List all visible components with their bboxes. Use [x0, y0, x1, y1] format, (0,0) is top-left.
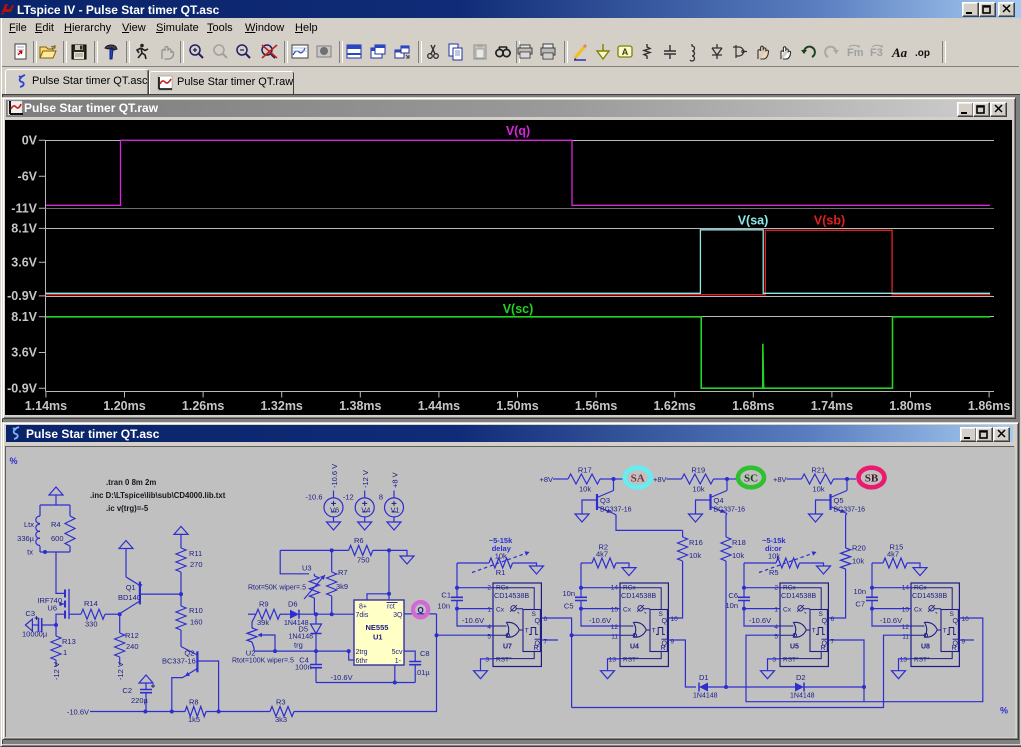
capacitor C7 [866, 597, 878, 600]
svg-text:T: T [943, 628, 947, 635]
toolbar [2, 38, 1019, 67]
voltage source V6 [333, 491, 335, 499]
svg-text:C3: C3 [25, 609, 35, 618]
svg-text:R: R [534, 645, 539, 652]
cd14538 U7 inner latch [523, 610, 540, 652]
x axis line [46, 391, 995, 393]
svg-text:100n: 100n [295, 663, 312, 672]
ground U8 RST [899, 659, 912, 671]
wire R3 to trigger node [294, 635, 437, 711]
svg-text:1.74ms: 1.74ms [811, 399, 853, 413]
diode D6 1N4148 [290, 610, 299, 619]
svg-text:rct: rct [387, 604, 395, 611]
svg-text:39k: 39k [257, 618, 269, 627]
toolbar icon text Aa [891, 42, 911, 62]
toolbar icon zoom out [233, 42, 253, 62]
diode D2 1N4148 [795, 683, 804, 692]
cd14538 U5 body [780, 583, 828, 667]
cd14538 U4 body [620, 583, 668, 667]
svg-text:C5: C5 [564, 602, 574, 611]
pane 1 top gridline 0V [46, 140, 995, 142]
wire U4 Qbar to D1 [668, 640, 696, 687]
toolbar icon ground [593, 42, 613, 62]
svg-text:S: S [532, 611, 537, 618]
svg-text:6: 6 [831, 616, 835, 623]
svg-text:R20: R20 [852, 544, 866, 553]
svg-text:U8: U8 [921, 644, 930, 651]
cd14538 U4 pin labels [623, 585, 646, 664]
svg-text:V(sb): V(sb) [814, 214, 845, 228]
svg-text:-10.6V: -10.6V [749, 616, 771, 625]
node junction trg D5 C4 [314, 649, 318, 653]
svg-text:3k9: 3k9 [336, 582, 348, 591]
svg-text:Q: Q [417, 606, 423, 615]
svg-text:-12 V: -12 V [116, 662, 125, 680]
svg-text:1.50ms: 1.50ms [496, 399, 538, 413]
diode D1 1N4148 [699, 683, 708, 692]
svg-text:4: 4 [487, 624, 491, 631]
tab Pulse Star timer QT.asc [5, 69, 149, 96]
svg-text:3.6V: 3.6V [11, 255, 37, 269]
svg-text:U3: U3 [302, 564, 312, 573]
toolbar icon zoom full extents [258, 42, 278, 62]
node junction pin8 jog [387, 592, 391, 596]
svg-text:RCx: RCx [914, 585, 927, 592]
svg-text:RST*: RST* [783, 657, 799, 664]
cd14538 U4 pin numbers [609, 585, 678, 664]
svg-text:Q1: Q1 [126, 583, 136, 592]
ground R15 [913, 568, 927, 576]
toolbar icon undo [798, 42, 818, 62]
wire U8 RCx Cx rail [871, 563, 873, 597]
svg-text:S: S [819, 611, 824, 618]
toolbar separator [339, 41, 343, 63]
svg-text:8.1V: 8.1V [11, 310, 37, 324]
svg-text:+8 V: +8 V [391, 472, 400, 488]
capacitor C3 [25, 619, 32, 631]
trace V(sc) [46, 317, 990, 388]
svg-text:10k: 10k [813, 484, 825, 493]
cd14538 U5 inner latch [810, 610, 827, 652]
node junction R6 R7 [330, 548, 334, 552]
node junction Q1 base R11 R10 [179, 592, 183, 596]
svg-text:SA: SA [631, 473, 645, 485]
svg-text:U6: U6 [47, 604, 57, 613]
wire Q5 collector [846, 479, 848, 491]
ground U4 RST [608, 659, 621, 671]
svg-text:BC337-16: BC337-16 [600, 507, 632, 514]
capacitor C5 [575, 597, 587, 600]
svg-text:240: 240 [126, 642, 139, 651]
ground Q4 base [696, 500, 711, 514]
schematic canvas [5, 446, 1015, 737]
wire loop top [40, 504, 70, 506]
x axis time labels [25, 399, 1011, 413]
svg-text:Q4: Q4 [714, 496, 724, 505]
wire pin8 pin4 top loop [388, 550, 390, 600]
svg-text:BC337-16: BC337-16 [162, 657, 196, 666]
svg-text:RCx: RCx [496, 585, 509, 592]
svg-text:C7: C7 [855, 600, 865, 609]
toolbar icon capacitor [660, 42, 680, 62]
svg-text:RST*: RST* [914, 657, 930, 664]
svg-text:.ic v(trg)=-5: .ic v(trg)=-5 [106, 504, 149, 513]
svg-text:-10.6V: -10.6V [67, 708, 89, 717]
power flag above Ltx R4 [49, 487, 63, 495]
svg-text:R: R [821, 645, 826, 652]
inductor Ltx [36, 505, 40, 552]
svg-text:RCx: RCx [783, 585, 796, 592]
wire trigger rail [254, 650, 349, 652]
wire trigger net to U7 [437, 634, 494, 636]
toolbar icon new schematic [11, 42, 31, 62]
ground V4 [358, 522, 372, 530]
toolbar icon cut [423, 42, 443, 62]
node junction Q2 emitter bottom rail [170, 710, 174, 714]
svg-text:D5: D5 [298, 625, 308, 634]
trace V(q) [46, 140, 990, 205]
toolbar separator [126, 41, 130, 63]
svg-text:1.62ms: 1.62ms [653, 399, 695, 413]
svg-text:6thr: 6thr [356, 658, 369, 665]
svg-text:1.26ms: 1.26ms [182, 399, 224, 413]
toolbar icon wire pencil [570, 42, 590, 62]
cd14538 U4 inner latch [650, 610, 667, 652]
diode D5 1N4148 [315, 614, 317, 624]
svg-text:tx: tx [27, 548, 33, 557]
pane 2 top gridline 8.1V [46, 228, 995, 230]
toolbar icon spice directive [913, 42, 933, 62]
svg-text:-10.6 V: -10.6 V [330, 464, 339, 488]
toolbar icon label net [615, 42, 635, 62]
toolbar icon copy [446, 42, 466, 62]
schematic restore button [976, 427, 993, 442]
svg-text:U7: U7 [503, 644, 512, 651]
svg-text:U2: U2 [246, 649, 256, 658]
svg-text:5cv: 5cv [392, 649, 403, 656]
svg-text:S: S [659, 611, 664, 618]
svg-text:A: A [621, 47, 628, 57]
wire U7 Q to U4 trigger and bus [541, 618, 571, 708]
node junction C2 bottom rail [143, 710, 147, 714]
transistor Q5 BC337-16 [829, 494, 831, 510]
svg-text:R: R [661, 645, 666, 652]
svg-text:-12 V: -12 V [52, 662, 61, 680]
svg-text:S: S [950, 611, 955, 618]
svg-text:Cx: Cx [496, 606, 505, 613]
svg-text:R21: R21 [811, 465, 825, 474]
svg-text:T: T [652, 628, 656, 635]
svg-text:13: 13 [900, 657, 908, 664]
wire U8 Qbar stub [959, 639, 974, 641]
ground Q5 base [816, 500, 831, 514]
ground R5 [817, 566, 831, 574]
cd14538 U8 pin labels [914, 585, 937, 664]
svg-text:1.14ms: 1.14ms [25, 399, 67, 413]
svg-text:R10: R10 [189, 606, 203, 615]
toolbar icon spice analysis [290, 42, 310, 62]
svg-text:NE555: NE555 [366, 623, 389, 632]
svg-text:2trg: 2trg [356, 649, 368, 656]
trace V(sb) [46, 230, 990, 294]
toolbar separator [564, 41, 568, 63]
toolbar icon print preview [515, 42, 535, 62]
svg-text:R14: R14 [84, 599, 98, 608]
ne555 U1 body [354, 600, 404, 665]
canvas sunken edge [6, 447, 1015, 738]
svg-text:12: 12 [611, 624, 619, 631]
waveform restore button [973, 102, 990, 117]
mosfet U6 IRF740 [64, 590, 66, 619]
svg-text:6: 6 [544, 616, 548, 623]
toolbar separator [516, 41, 520, 63]
node junction R6 pin4 [387, 548, 391, 552]
node junction dis U3 D5 [314, 612, 318, 616]
svg-text:1.56ms: 1.56ms [575, 399, 617, 413]
svg-text:C6: C6 [728, 591, 738, 600]
svg-text:.op: .op [915, 48, 930, 59]
capacitor C4 [315, 651, 317, 664]
svg-text:C2: C2 [122, 686, 132, 695]
svg-text:R17: R17 [578, 465, 592, 474]
cd14538 U7 internal lines [493, 588, 534, 659]
cd14538 U5 trigger gate [794, 622, 807, 637]
toolbar separator [94, 41, 98, 63]
svg-text:11: 11 [611, 633, 618, 640]
svg-text:CD14538B: CD14538B [781, 591, 816, 600]
cd14538 U7 trigger gate [507, 622, 520, 637]
wire trigger bus bottom to U8 [572, 635, 911, 707]
toolbar icon cascade [368, 42, 388, 62]
svg-text:R8: R8 [189, 697, 199, 706]
pane 1 bottom boundary [46, 208, 995, 210]
svg-text:-0.9V: -0.9V [7, 289, 38, 303]
cd14538 U7 pin labels [496, 585, 519, 664]
app icon [0, 1, 15, 15]
ground R1 [530, 566, 544, 574]
svg-text:RST*: RST* [623, 657, 639, 664]
resistor R4 [69, 505, 71, 516]
node junction R21 Q5 [845, 477, 849, 481]
svg-text:1: 1 [63, 648, 67, 657]
resistor R2 [581, 562, 592, 564]
svg-text:5: 5 [487, 633, 491, 640]
potentiometer U2 [252, 614, 256, 628]
svg-text:10n: 10n [853, 587, 866, 596]
cd14538 U7 pin numbers [485, 585, 547, 664]
transistor Q3 BC337-16 [596, 494, 598, 510]
svg-text:10k: 10k [693, 484, 705, 493]
svg-text:V(sa): V(sa) [738, 214, 769, 228]
toolbar icon open [38, 42, 58, 62]
svg-text:10k: 10k [852, 557, 864, 566]
cd14538 U8 inner latch [941, 610, 958, 652]
svg-text:C8: C8 [420, 649, 430, 658]
close button [998, 2, 1015, 17]
svg-text:1-: 1- [395, 658, 402, 665]
svg-text:BC337-16: BC337-16 [834, 507, 866, 514]
wire ne555 ground rail [316, 682, 415, 684]
svg-text:BC337-16: BC337-16 [714, 507, 746, 514]
svg-text:160: 160 [190, 618, 203, 627]
wire loop bottom [40, 551, 70, 553]
svg-text:SC: SC [744, 473, 758, 485]
svg-text:-6V: -6V [18, 170, 38, 184]
wire U5 Qbar down to bus [828, 640, 864, 702]
svg-text:1k5: 1k5 [188, 715, 200, 724]
svg-text:R9: R9 [259, 600, 269, 609]
svg-text:10k: 10k [689, 551, 701, 560]
svg-text:-10.6: -10.6 [305, 493, 322, 502]
cd14538 U8 pin numbers [900, 585, 969, 664]
svg-text:3Q: 3Q [393, 612, 403, 619]
ground U5 RST [768, 659, 781, 671]
svg-text:220µ: 220µ [131, 696, 149, 705]
svg-text:CD14538B: CD14538B [621, 591, 656, 600]
ground right of R6 [400, 556, 414, 564]
resistor R13 [55, 625, 57, 636]
svg-text:10n: 10n [562, 589, 575, 598]
svg-text:%: % [1000, 706, 1008, 716]
wire Q4 emitter to R18 [726, 514, 727, 538]
svg-text:600: 600 [51, 534, 64, 543]
svg-text:.01µ: .01µ [415, 668, 430, 677]
svg-text:Q: Q [662, 618, 668, 625]
schematic window frame [2, 422, 1019, 740]
node junction Q2 base bottom rail [217, 710, 221, 714]
toolbar icon save [69, 42, 89, 62]
toolbar separator [180, 41, 184, 63]
resistor R17 [553, 478, 568, 480]
svg-text:10: 10 [962, 616, 970, 623]
waveform plot area [5, 120, 1012, 415]
svg-text:Cx: Cx [914, 606, 923, 613]
transistor Q1 BD140 [139, 582, 141, 605]
svg-text:R3: R3 [276, 697, 286, 706]
wire U7 RCx Cx rail [456, 563, 458, 597]
svg-text:4: 4 [774, 624, 778, 631]
svg-text:C1: C1 [441, 591, 451, 600]
waveform window frame [2, 97, 1016, 419]
svg-text:%: % [10, 456, 18, 466]
svg-text:10000µ: 10000µ [22, 630, 48, 639]
waveform window title bar [6, 100, 1010, 117]
svg-text:1.68ms: 1.68ms [732, 399, 774, 413]
resistor R8 [185, 707, 206, 717]
svg-text:+8V: +8V [773, 475, 787, 484]
svg-text:Cx: Cx [783, 606, 792, 613]
svg-text:F3: F3 [870, 47, 883, 59]
wire Q3 emitter to R16 [614, 514, 683, 531]
cd14538 U7 body [493, 583, 541, 667]
svg-text:R12: R12 [125, 631, 139, 640]
svg-text:D6: D6 [288, 600, 298, 609]
potentiometer R1 [457, 562, 489, 564]
svg-text:Q: Q [953, 618, 959, 625]
toolbar separator [63, 41, 67, 63]
toolbar icon component gate [729, 42, 749, 62]
minimize button [962, 2, 979, 17]
svg-text:D2: D2 [796, 673, 806, 682]
resistor R14 [81, 609, 105, 619]
cd14538 U5 pin numbers [772, 585, 834, 664]
svg-text:BD140: BD140 [118, 593, 141, 602]
cd14538 U5 internal lines [780, 588, 821, 659]
svg-text:Cx: Cx [623, 606, 632, 613]
svg-text:R18: R18 [732, 538, 746, 547]
svg-text:R: R [952, 645, 957, 652]
toolbar separator [33, 41, 37, 63]
toolbar icon blackbox [314, 42, 334, 62]
capacitor C8 [404, 651, 415, 661]
toolbar icon mark unattached [845, 42, 865, 62]
svg-text:Q: Q [535, 618, 541, 625]
svg-text:1.86ms: 1.86ms [968, 399, 1010, 413]
resistor R11 [176, 548, 186, 572]
toolbar icon diode [707, 42, 727, 62]
svg-text:1N4148: 1N4148 [288, 634, 313, 641]
restore button [979, 2, 996, 17]
wire U4 RCx Cx rail [580, 563, 582, 597]
toolbar separator [418, 41, 422, 63]
y axis line [45, 141, 47, 392]
pane 3 top gridline 8.1V [46, 316, 995, 318]
tab bar [2, 67, 1019, 94]
transistor Q4 BC337-16 [709, 494, 711, 510]
cd14538 U4 internal lines [620, 588, 661, 659]
svg-text:10n: 10n [725, 601, 738, 610]
node marker ring Q3 [614, 478, 623, 480]
ne555 pin labels [356, 603, 404, 666]
svg-text:T: T [812, 628, 816, 635]
svg-text:4k7: 4k7 [887, 550, 899, 559]
svg-text:330: 330 [85, 620, 98, 629]
ground R2 [622, 568, 636, 576]
wire R6 left down to U3 [280, 550, 309, 573]
resistor R21 [787, 478, 802, 480]
trace V(sa) [46, 230, 990, 293]
toolbar icon zoom back [210, 42, 230, 62]
wire bottom left rail [90, 711, 185, 713]
svg-text:10k: 10k [732, 551, 744, 560]
resistor R6 [280, 549, 348, 551]
cd14538 U8 body [911, 583, 959, 667]
svg-text:+8V: +8V [539, 475, 553, 484]
node Q output marker [404, 613, 437, 615]
potentiometer U3 [313, 574, 315, 576]
svg-text:10k: 10k [768, 552, 780, 561]
resistor R7 [331, 550, 333, 572]
ground U7 RST [481, 659, 494, 671]
voltage source V1 [393, 491, 395, 499]
node junction dis R7 [330, 612, 334, 616]
wire rail R8 to R3 [206, 711, 270, 713]
y axis labels [7, 134, 38, 396]
toolbar icon find [493, 42, 513, 62]
resistor R16 [682, 530, 684, 537]
wire junction to D2 [726, 686, 795, 688]
svg-text:T: T [525, 628, 529, 635]
toolbar icon print [538, 42, 558, 62]
node junction R19 Q4 [725, 477, 729, 481]
svg-text:1: 1 [774, 606, 778, 613]
toolbar icon hammer run [101, 42, 121, 62]
svg-text:U5: U5 [790, 644, 799, 651]
svg-text:-12: -12 [343, 493, 354, 502]
svg-text:R7: R7 [338, 568, 348, 577]
svg-text:Rtot=50K wiper=.5: Rtot=50K wiper=.5 [248, 585, 306, 592]
svg-text:-11V: -11V [11, 202, 37, 216]
